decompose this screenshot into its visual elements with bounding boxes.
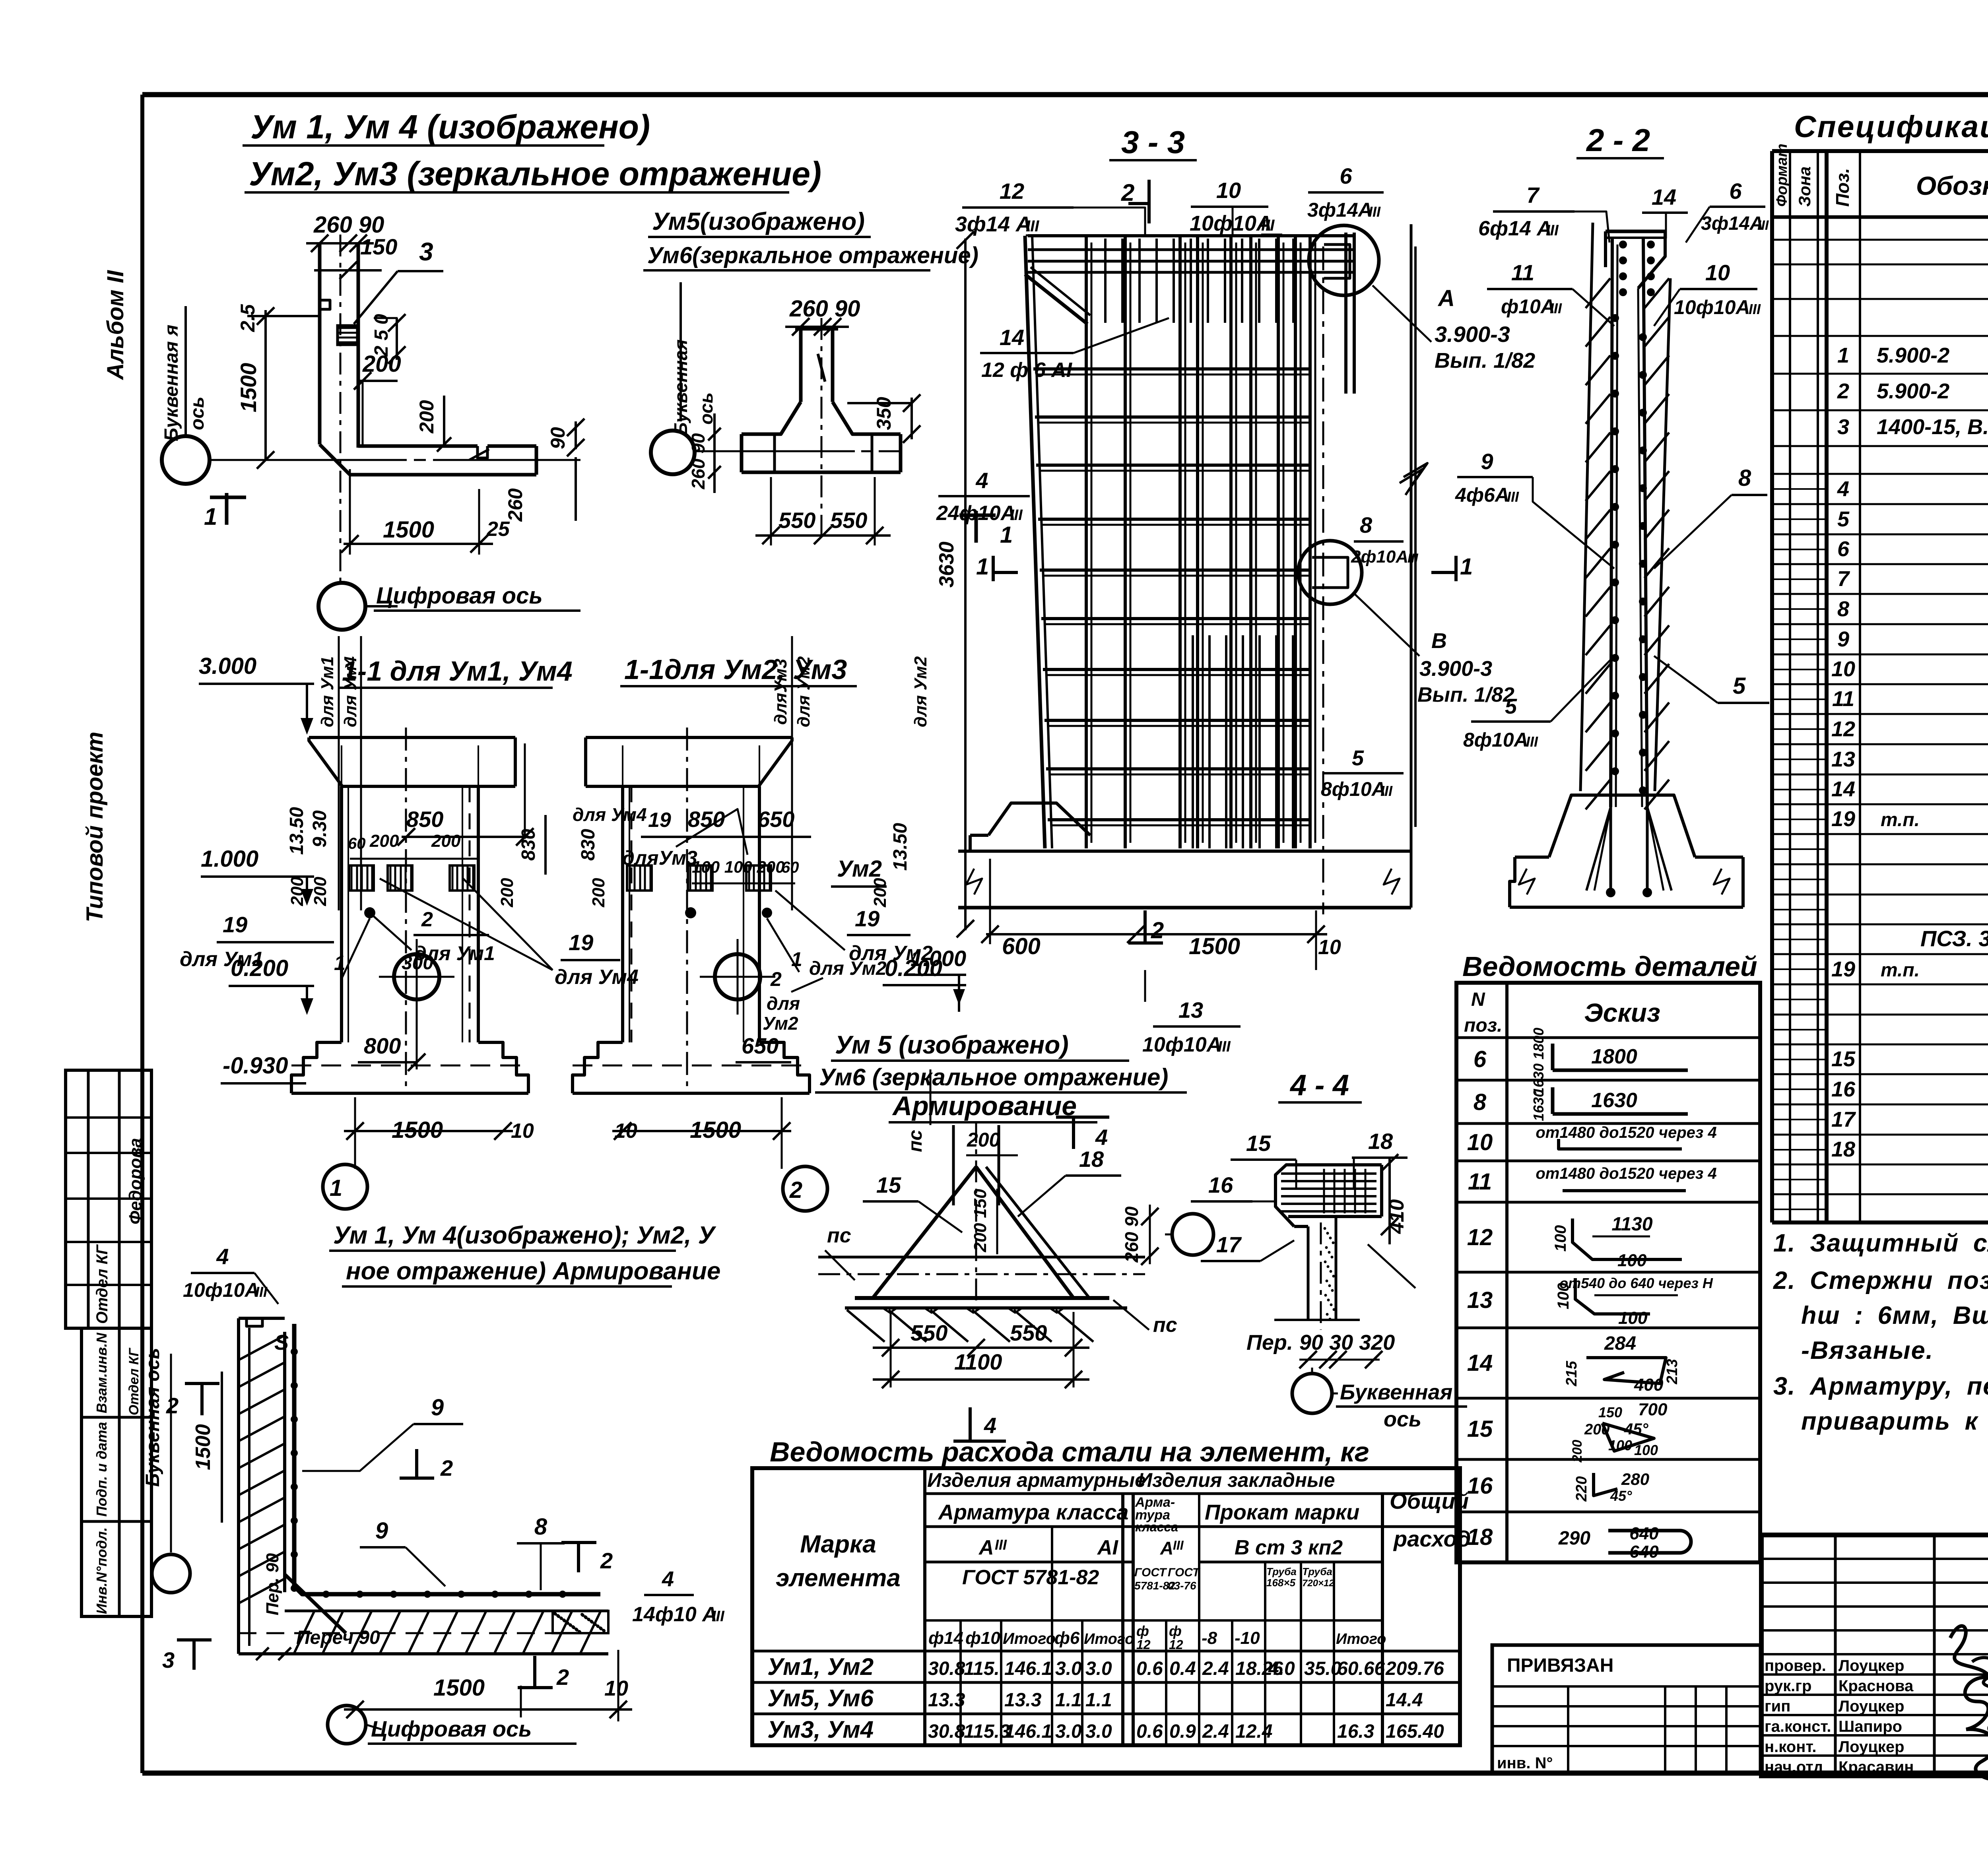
- svg-text:рук.гр: рук.гр: [1765, 1677, 1811, 1695]
- svg-text:12: 12: [1467, 1224, 1493, 1250]
- svg-text:1.000: 1.000: [201, 846, 258, 872]
- svg-text:Подп. и дата: Подп. и дата: [93, 1422, 110, 1517]
- svg-text:5: 5: [1505, 695, 1517, 718]
- svg-text:200: 200: [415, 400, 438, 434]
- svg-text:Ум 1, Ум 4 (изображено): Ум 1, Ум 4 (изображено): [250, 108, 650, 146]
- svg-text:280: 280: [1621, 1470, 1649, 1488]
- svg-text:1630: 1630: [1530, 1089, 1547, 1121]
- svg-text:410: 410: [1385, 1199, 1408, 1234]
- svg-text:Ведомость деталей: Ведомость деталей: [1462, 951, 1757, 982]
- svg-text:720×12: 720×12: [1302, 1578, 1334, 1589]
- svg-text:ПСЗ. 3 ÷ 14, материалы см. Ум1: ПСЗ. 3 ÷ 14, материалы см. Ум1, Ум4: [1920, 926, 1988, 951]
- svg-text:14: 14: [1831, 777, 1855, 801]
- svg-text:А: А: [978, 1536, 994, 1559]
- svg-text:1500: 1500: [192, 1424, 215, 1470]
- svg-text:850: 850: [406, 807, 443, 832]
- svg-text:11: 11: [1832, 687, 1854, 711]
- svg-text:пс: пс: [1153, 1314, 1177, 1337]
- svg-text:Обозначение: Обозначение: [1916, 171, 1988, 200]
- svg-text:13.50: 13.50: [890, 823, 911, 871]
- svg-text:ось: ось: [1384, 1407, 1421, 1431]
- svg-text:200: 200: [311, 877, 330, 906]
- svg-text:9.30: 9.30: [309, 810, 330, 848]
- svg-text:115.: 115.: [964, 1658, 1000, 1679]
- svg-text:Марка: Марка: [800, 1531, 876, 1558]
- svg-text:3.0: 3.0: [1055, 1658, 1082, 1679]
- svg-text:24ф10А: 24ф10А: [936, 502, 1015, 525]
- svg-text:3630: 3630: [935, 541, 958, 588]
- svg-text:12.4: 12.4: [1235, 1721, 1272, 1742]
- svg-text:2ф10А: 2ф10А: [1351, 547, 1408, 567]
- svg-text:15: 15: [876, 1172, 901, 1197]
- svg-text:Поз.: Поз.: [1832, 168, 1853, 207]
- svg-text:Красавин: Красавин: [1839, 1758, 1914, 1776]
- svg-text:т.п.: т.п.: [1881, 809, 1920, 830]
- svg-text:30.8: 30.8: [928, 1658, 965, 1679]
- svg-text:200: 200: [967, 1129, 1000, 1151]
- svg-text:200: 200: [497, 878, 517, 908]
- svg-text:4: 4: [984, 1413, 996, 1438]
- svg-text:дляУм3: дляУм3: [771, 659, 790, 725]
- svg-text:1800: 1800: [1591, 1045, 1637, 1068]
- svg-text:12: 12: [1136, 1638, 1151, 1652]
- svg-text:15: 15: [1246, 1131, 1271, 1156]
- svg-text:650: 650: [742, 1033, 779, 1058]
- svg-text:150: 150: [360, 234, 397, 259]
- svg-text:650: 650: [757, 807, 794, 832]
- svg-text:18: 18: [1467, 1524, 1493, 1550]
- svg-text:2: 2: [600, 1548, 613, 1573]
- svg-text:III: III: [1546, 222, 1559, 239]
- svg-text:Эскиз: Эскиз: [1584, 998, 1660, 1027]
- svg-text:146.1: 146.1: [1004, 1658, 1052, 1679]
- svg-text:2: 2: [421, 908, 433, 931]
- svg-text:ф10А: ф10А: [1501, 295, 1555, 318]
- svg-text:Взам.инв.N: Взам.инв.N: [93, 1332, 110, 1413]
- svg-text:1500: 1500: [236, 363, 261, 413]
- svg-text:Вып. 1/82: Вып. 1/82: [1417, 683, 1514, 706]
- svg-text:100: 100: [1608, 1437, 1632, 1453]
- svg-text:60: 60: [348, 835, 366, 852]
- svg-text:2: 2: [770, 968, 782, 990]
- svg-text:нач.отд: нач.отд: [1765, 1758, 1823, 1776]
- svg-text:19: 19: [1831, 807, 1855, 831]
- svg-text:12: 12: [1169, 1638, 1183, 1652]
- svg-text:16: 16: [1208, 1172, 1233, 1197]
- svg-text:6: 6: [1340, 163, 1352, 188]
- svg-text:III: III: [1507, 489, 1519, 505]
- svg-text:13: 13: [1831, 747, 1855, 771]
- svg-text:от1480 до1520 через 4: от1480 до1520 через 4: [1536, 1165, 1716, 1182]
- svg-text:14: 14: [1467, 1350, 1493, 1376]
- svg-text:III: III: [1749, 301, 1761, 317]
- svg-text:н.конт.: н.конт.: [1765, 1738, 1817, 1756]
- svg-text:Лоуцкер: Лоуцкер: [1839, 1698, 1905, 1715]
- svg-text:1.000: 1.000: [911, 946, 966, 971]
- svg-text:350: 350: [873, 397, 895, 430]
- svg-text:III: III: [1757, 218, 1769, 233]
- svg-text:Изделия арматурные: Изделия арматурные: [927, 1469, 1146, 1491]
- svg-text:1: 1: [330, 1175, 342, 1201]
- svg-text:215: 215: [1563, 1360, 1580, 1386]
- svg-text:4: 4: [975, 468, 988, 493]
- svg-text:115.3: 115.3: [964, 1721, 1010, 1742]
- svg-text:18: 18: [1079, 1147, 1104, 1172]
- svg-text:3.0: 3.0: [1085, 1658, 1112, 1679]
- svg-text:1-1для Ум2, Ум3: 1-1для Ум2, Ум3: [624, 654, 847, 685]
- svg-text:Арматура класса: Арматура класса: [938, 1500, 1128, 1524]
- svg-text:ГОСТ: ГОСТ: [1168, 1566, 1201, 1579]
- svg-text:14: 14: [1652, 184, 1676, 210]
- svg-text:10: 10: [1318, 936, 1341, 959]
- svg-text:200: 200: [589, 878, 608, 908]
- svg-text:200: 200: [362, 351, 401, 377]
- svg-text:200: 200: [1570, 1440, 1585, 1463]
- svg-text:1630 1800: 1630 1800: [1530, 1028, 1547, 1095]
- svg-text:АI: АI: [1097, 1536, 1119, 1559]
- svg-text:0.4: 0.4: [1169, 1658, 1196, 1679]
- svg-text:10ф10А: 10ф10А: [1190, 211, 1272, 235]
- svg-text:Лоуцкер: Лоуцкер: [1839, 1738, 1905, 1756]
- svg-text:Инв.N°подл.: Инв.N°подл.: [93, 1527, 110, 1614]
- svg-text:Ум6 (зеркальное отражение): Ум6 (зеркальное отражение): [819, 1064, 1168, 1090]
- svg-text:В: В: [1431, 629, 1447, 653]
- svg-text:т.п.: т.п.: [1881, 960, 1920, 981]
- svg-text:0.6: 0.6: [1136, 1721, 1163, 1742]
- svg-text:25: 25: [486, 518, 510, 541]
- svg-text:6: 6: [1837, 537, 1850, 561]
- svg-text:Федорова: Федорова: [126, 1138, 145, 1224]
- svg-text:16: 16: [1467, 1473, 1493, 1499]
- svg-text:Спецификация к монолитным у: Спецификация к монолитным участкам стен: [1794, 110, 1988, 144]
- svg-text:700: 700: [1638, 1400, 1668, 1419]
- svg-text:4: 4: [662, 1567, 674, 1591]
- svg-text:8ф10А: 8ф10А: [1463, 729, 1528, 751]
- svg-text:45°: 45°: [1610, 1488, 1632, 1504]
- svg-text:Цифровая ось: Цифровая ось: [371, 1716, 532, 1741]
- svg-text:1630: 1630: [1591, 1089, 1637, 1112]
- svg-text:850: 850: [688, 807, 725, 832]
- svg-text:III: III: [995, 1537, 1007, 1553]
- svg-text:hш : 6мм, Вш : 6мм. Осталь: hш : 6мм, Вш : 6мм. Остальные соединения…: [1801, 1302, 1988, 1329]
- svg-text:ПРИВЯЗАН: ПРИВЯЗАН: [1507, 1655, 1613, 1676]
- svg-text:12 ф 6 АI: 12 ф 6 АI: [981, 359, 1073, 382]
- svg-text:1500: 1500: [392, 1117, 443, 1143]
- svg-text:Общий: Общий: [1390, 1488, 1469, 1513]
- svg-text:N: N: [1471, 989, 1485, 1010]
- svg-text:8: 8: [1360, 512, 1373, 537]
- svg-text:2 - 2: 2 - 2: [1586, 122, 1650, 158]
- svg-text:1: 1: [976, 554, 989, 580]
- svg-text:Формат: Формат: [1774, 144, 1790, 207]
- svg-text:260 90: 260 90: [789, 296, 860, 322]
- svg-text:1-1 для Ум1, Ум4: 1-1 для Ум1, Ум4: [342, 656, 573, 687]
- svg-text:1500: 1500: [383, 517, 434, 543]
- svg-text:4: 4: [1837, 477, 1849, 501]
- svg-text:220: 220: [1573, 1476, 1590, 1502]
- svg-text:-0.930: -0.930: [223, 1053, 288, 1079]
- svg-text:Типовой проект: Типовой проект: [82, 731, 108, 922]
- svg-text:Пер. 90: Пер. 90: [263, 1553, 282, 1615]
- svg-text:9: 9: [1481, 449, 1493, 474]
- svg-text:Вып. 1/82: Вып. 1/82: [1435, 349, 1535, 373]
- svg-text:расход: расход: [1393, 1526, 1471, 1551]
- svg-text:550: 550: [779, 508, 815, 533]
- svg-text:2: 2: [1151, 918, 1164, 943]
- svg-text:8ф10А: 8ф10А: [1321, 778, 1386, 800]
- svg-text:класса: класса: [1135, 1520, 1178, 1534]
- svg-text:200: 200: [870, 878, 890, 908]
- svg-text:2 5 0: 2 5 0: [371, 314, 392, 357]
- svg-text:для Ум4: для Ум4: [573, 804, 647, 825]
- svg-text:от1480 до1520 через 4: от1480 до1520 через 4: [1536, 1124, 1716, 1141]
- svg-text:16: 16: [1831, 1077, 1856, 1101]
- svg-text:1500: 1500: [433, 1675, 485, 1701]
- svg-text:1100: 1100: [954, 1349, 1002, 1374]
- svg-text:550: 550: [1010, 1320, 1047, 1345]
- svg-text:пс: пс: [905, 1130, 926, 1152]
- svg-text:Ум1, Ум2: Ум1, Ум2: [767, 1653, 874, 1680]
- svg-text:30.8: 30.8: [928, 1721, 965, 1742]
- svg-text:7: 7: [1837, 567, 1850, 591]
- svg-text:213: 213: [1664, 1359, 1681, 1384]
- svg-text:S: S: [274, 1331, 289, 1354]
- svg-text:III: III: [1026, 217, 1039, 235]
- svg-text:200 150: 200 150: [971, 1189, 990, 1253]
- svg-text:2: 2: [789, 1177, 802, 1203]
- svg-text:10: 10: [1831, 657, 1855, 681]
- svg-text:гип: гип: [1765, 1698, 1790, 1715]
- svg-text:Отдел КГ: Отдел КГ: [126, 1347, 142, 1415]
- svg-text:17: 17: [1216, 1232, 1242, 1257]
- svg-text:260 90: 260 90: [688, 433, 709, 489]
- svg-text:12: 12: [1831, 717, 1855, 741]
- svg-text:146.1: 146.1: [1004, 1721, 1052, 1742]
- svg-text:19: 19: [569, 930, 593, 955]
- svg-text:550: 550: [911, 1320, 947, 1345]
- svg-text:для: для: [767, 993, 800, 1014]
- svg-text:11: 11: [1511, 260, 1534, 285]
- svg-text:2: 2: [440, 1455, 453, 1480]
- svg-text:III: III: [1261, 217, 1275, 234]
- svg-text:60: 60: [781, 859, 799, 876]
- svg-text:18: 18: [1831, 1137, 1855, 1161]
- svg-text:1: 1: [1000, 522, 1013, 548]
- svg-text:3.900-3: 3.900-3: [1435, 322, 1510, 347]
- svg-text:5: 5: [1837, 507, 1850, 531]
- svg-text:III: III: [1218, 1038, 1231, 1055]
- svg-text:100 100 200: 100 100 200: [692, 858, 785, 876]
- svg-text:300: 300: [402, 953, 433, 974]
- svg-text:100: 100: [1617, 1251, 1647, 1270]
- svg-text:III: III: [1526, 733, 1538, 750]
- svg-text:2. Стержни поз. 13 приварит: 2. Стержни поз. 13 приварить к стержням …: [1773, 1267, 1988, 1294]
- svg-text:4.0: 4.0: [1268, 1658, 1295, 1679]
- svg-text:Ум5, Ум6: Ум5, Ум6: [767, 1685, 874, 1711]
- svg-text:Ведомость расхода стали на: Ведомость расхода стали на элемент, кг: [770, 1436, 1369, 1467]
- svg-text:пс: пс: [827, 1224, 851, 1247]
- svg-text:для Ум4: для Ум4: [555, 966, 639, 989]
- svg-text:Ум 5 (изображено): Ум 5 (изображено): [835, 1030, 1069, 1059]
- svg-text:0.200: 0.200: [231, 955, 288, 981]
- svg-text:260: 260: [504, 488, 526, 522]
- svg-text:ось: ось: [187, 396, 208, 430]
- svg-text:А: А: [1160, 1538, 1173, 1558]
- svg-text:5: 5: [1733, 673, 1746, 699]
- svg-text:6: 6: [1474, 1046, 1487, 1072]
- svg-text:Ум3, Ум4: Ум3, Ум4: [767, 1716, 874, 1743]
- svg-text:10: 10: [1705, 260, 1730, 285]
- svg-text:90 30 320: 90 30 320: [1299, 1331, 1395, 1354]
- svg-text:10ф10А: 10ф10А: [1142, 1033, 1221, 1056]
- svg-text:10: 10: [614, 1120, 637, 1143]
- svg-text:Ум 1, Ум 4(изображено); Ум2, У: Ум 1, Ум 4(изображено); Ум2, У: [333, 1222, 716, 1249]
- svg-text:03-76: 03-76: [1168, 1579, 1196, 1592]
- svg-text:дляУм3: дляУм3: [622, 847, 697, 869]
- svg-text:165.40: 165.40: [1386, 1721, 1444, 1742]
- svg-text:ГОСТ: ГОСТ: [1134, 1566, 1167, 1579]
- svg-text:2: 2: [1121, 179, 1134, 206]
- svg-text:200: 200: [431, 831, 461, 851]
- svg-text:10: 10: [604, 1676, 628, 1700]
- svg-text:5.900-2: 5.900-2: [1877, 379, 1949, 403]
- svg-text:Ум5(изображено): Ум5(изображено): [652, 208, 865, 235]
- svg-text:9: 9: [431, 1395, 444, 1420]
- svg-text:550: 550: [830, 508, 867, 533]
- svg-text:для Ум1: для Ум1: [318, 656, 337, 727]
- svg-text:1.1: 1.1: [1055, 1690, 1082, 1711]
- svg-text:1. Защитный слой бетона -: 1. Защитный слой бетона - 20мм: [1773, 1229, 1988, 1257]
- svg-text:III: III: [1380, 783, 1393, 799]
- svg-text:209.76: 209.76: [1385, 1658, 1444, 1679]
- svg-text:Ум2, Ум3 (зеркальное отражение: Ум2, Ум3 (зеркальное отражение): [249, 155, 821, 192]
- svg-text:III: III: [1173, 1538, 1184, 1552]
- svg-text:13.50: 13.50: [286, 807, 307, 855]
- svg-text:100: 100: [1618, 1308, 1648, 1328]
- svg-text:8: 8: [1738, 465, 1751, 491]
- svg-text:3.900-3: 3.900-3: [1419, 657, 1492, 681]
- svg-text:Альбом II: Альбом II: [103, 270, 128, 380]
- svg-text:2: 2: [166, 1393, 179, 1418]
- svg-text:19: 19: [1831, 957, 1855, 981]
- svg-text:13: 13: [1178, 997, 1203, 1023]
- svg-text:640: 640: [1629, 1524, 1659, 1543]
- svg-text:Цифровая ось: Цифровая ось: [376, 583, 543, 609]
- svg-text:6ф14 А: 6ф14 А: [1478, 217, 1552, 240]
- svg-text:Шапиро: Шапиро: [1839, 1718, 1902, 1735]
- svg-text:14: 14: [1000, 325, 1024, 350]
- svg-text:3ф14 А: 3ф14 А: [955, 212, 1031, 236]
- svg-text:Итого: Итого: [1003, 1630, 1056, 1647]
- svg-text:3: 3: [162, 1647, 175, 1673]
- svg-text:Итого: Итого: [1336, 1631, 1386, 1647]
- svg-text:6: 6: [1729, 179, 1742, 204]
- svg-text:800: 800: [364, 1033, 401, 1058]
- svg-text:10: 10: [1216, 178, 1241, 203]
- svg-text:ГОСТ 5781-82: ГОСТ 5781-82: [962, 1566, 1099, 1589]
- svg-text:Буквенная я: Буквенная я: [161, 325, 182, 441]
- svg-text:260 90: 260 90: [1121, 1206, 1142, 1263]
- svg-text:III: III: [1010, 507, 1023, 524]
- svg-text:Итого: Итого: [1084, 1631, 1134, 1647]
- svg-text:168×5: 168×5: [1266, 1577, 1296, 1589]
- svg-text:1130: 1130: [1611, 1214, 1653, 1235]
- svg-text:830: 830: [578, 829, 599, 861]
- svg-text:8: 8: [534, 1514, 547, 1540]
- svg-text:3 - 3: 3 - 3: [1121, 124, 1185, 160]
- svg-text:15: 15: [1831, 1047, 1856, 1071]
- svg-text:3: 3: [1837, 415, 1849, 439]
- svg-text:III: III: [1408, 551, 1419, 565]
- svg-text:ное отражение) Армирование: ное отражение) Армирование: [346, 1257, 720, 1285]
- svg-text:290: 290: [1558, 1528, 1590, 1549]
- svg-text:2.5: 2.5: [237, 304, 259, 332]
- svg-text:га.конст.: га.конст.: [1765, 1718, 1831, 1735]
- svg-text:приварить к корпусу сальни: приварить к корпусу сальника.: [1801, 1407, 1988, 1435]
- svg-text:Зона: Зона: [1795, 167, 1814, 207]
- svg-text:13: 13: [1467, 1287, 1493, 1313]
- svg-text:для Ум2: для Ум2: [911, 656, 930, 727]
- svg-text:100: 100: [1552, 1225, 1569, 1252]
- svg-text:-8: -8: [1202, 1628, 1217, 1648]
- svg-text:100: 100: [1634, 1442, 1658, 1458]
- svg-text:3. Арматуру, перерезаемую сал: 3. Арматуру, перерезаемую сальниками, от…: [1773, 1372, 1988, 1400]
- svg-text:400: 400: [1634, 1375, 1664, 1395]
- svg-text:35.0: 35.0: [1304, 1658, 1342, 1679]
- svg-text:Армирование: Армирование: [892, 1091, 1077, 1121]
- svg-text:Пер.: Пер.: [1246, 1331, 1293, 1354]
- svg-text:9: 9: [375, 1518, 388, 1544]
- svg-text:14ф10 А: 14ф10 А: [632, 1603, 717, 1626]
- svg-text:284: 284: [1604, 1333, 1636, 1354]
- svg-text:4ф6А: 4ф6А: [1455, 484, 1509, 506]
- svg-text:600: 600: [1002, 933, 1041, 959]
- svg-text:Ум6(зеркальное отражение): Ум6(зеркальное отражение): [647, 243, 978, 268]
- svg-text:17: 17: [1831, 1108, 1856, 1131]
- svg-text:1: 1: [334, 952, 346, 975]
- svg-text:200: 200: [287, 877, 307, 906]
- svg-text:10: 10: [511, 1120, 534, 1143]
- svg-text:10: 10: [1467, 1129, 1493, 1155]
- svg-text:4 - 4: 4 - 4: [1289, 1069, 1349, 1102]
- svg-text:2.4: 2.4: [1202, 1658, 1229, 1679]
- svg-text:9: 9: [1837, 627, 1849, 651]
- svg-text:60.66: 60.66: [1337, 1658, 1385, 1679]
- svg-text:3.0: 3.0: [1055, 1721, 1082, 1742]
- svg-text:150: 150: [1598, 1404, 1622, 1420]
- svg-text:640: 640: [1629, 1542, 1659, 1562]
- svg-text:16.3: 16.3: [1337, 1721, 1375, 1742]
- svg-text:1400-15, В.1.120-71: 1400-15, В.1.120-71: [1877, 415, 1988, 439]
- svg-text:3ф14А: 3ф14А: [1307, 199, 1373, 221]
- svg-text:10ф10А: 10ф10А: [1674, 296, 1750, 318]
- svg-text:поз.: поз.: [1464, 1015, 1502, 1036]
- svg-text:-10: -10: [1235, 1628, 1260, 1648]
- svg-text:ф6: ф6: [1054, 1628, 1080, 1648]
- svg-text:18: 18: [1368, 1129, 1393, 1154]
- svg-text:-Вязаные.: -Вязаные.: [1801, 1337, 1934, 1364]
- svg-text:5.900-2: 5.900-2: [1877, 343, 1949, 367]
- svg-text:Отдел КГ: Отдел КГ: [93, 1244, 111, 1324]
- svg-text:В ст 3 кп2: В ст 3 кп2: [1235, 1536, 1343, 1559]
- svg-text:от540 до 640 через Н: от540 до 640 через Н: [1559, 1275, 1713, 1291]
- svg-text:0.9: 0.9: [1169, 1721, 1196, 1742]
- svg-text:Буквенная: Буквенная: [1340, 1380, 1452, 1404]
- svg-text:III: III: [712, 1608, 725, 1625]
- svg-text:3: 3: [419, 237, 433, 266]
- svg-text:15: 15: [1467, 1416, 1493, 1442]
- svg-text:3.000: 3.000: [199, 653, 256, 679]
